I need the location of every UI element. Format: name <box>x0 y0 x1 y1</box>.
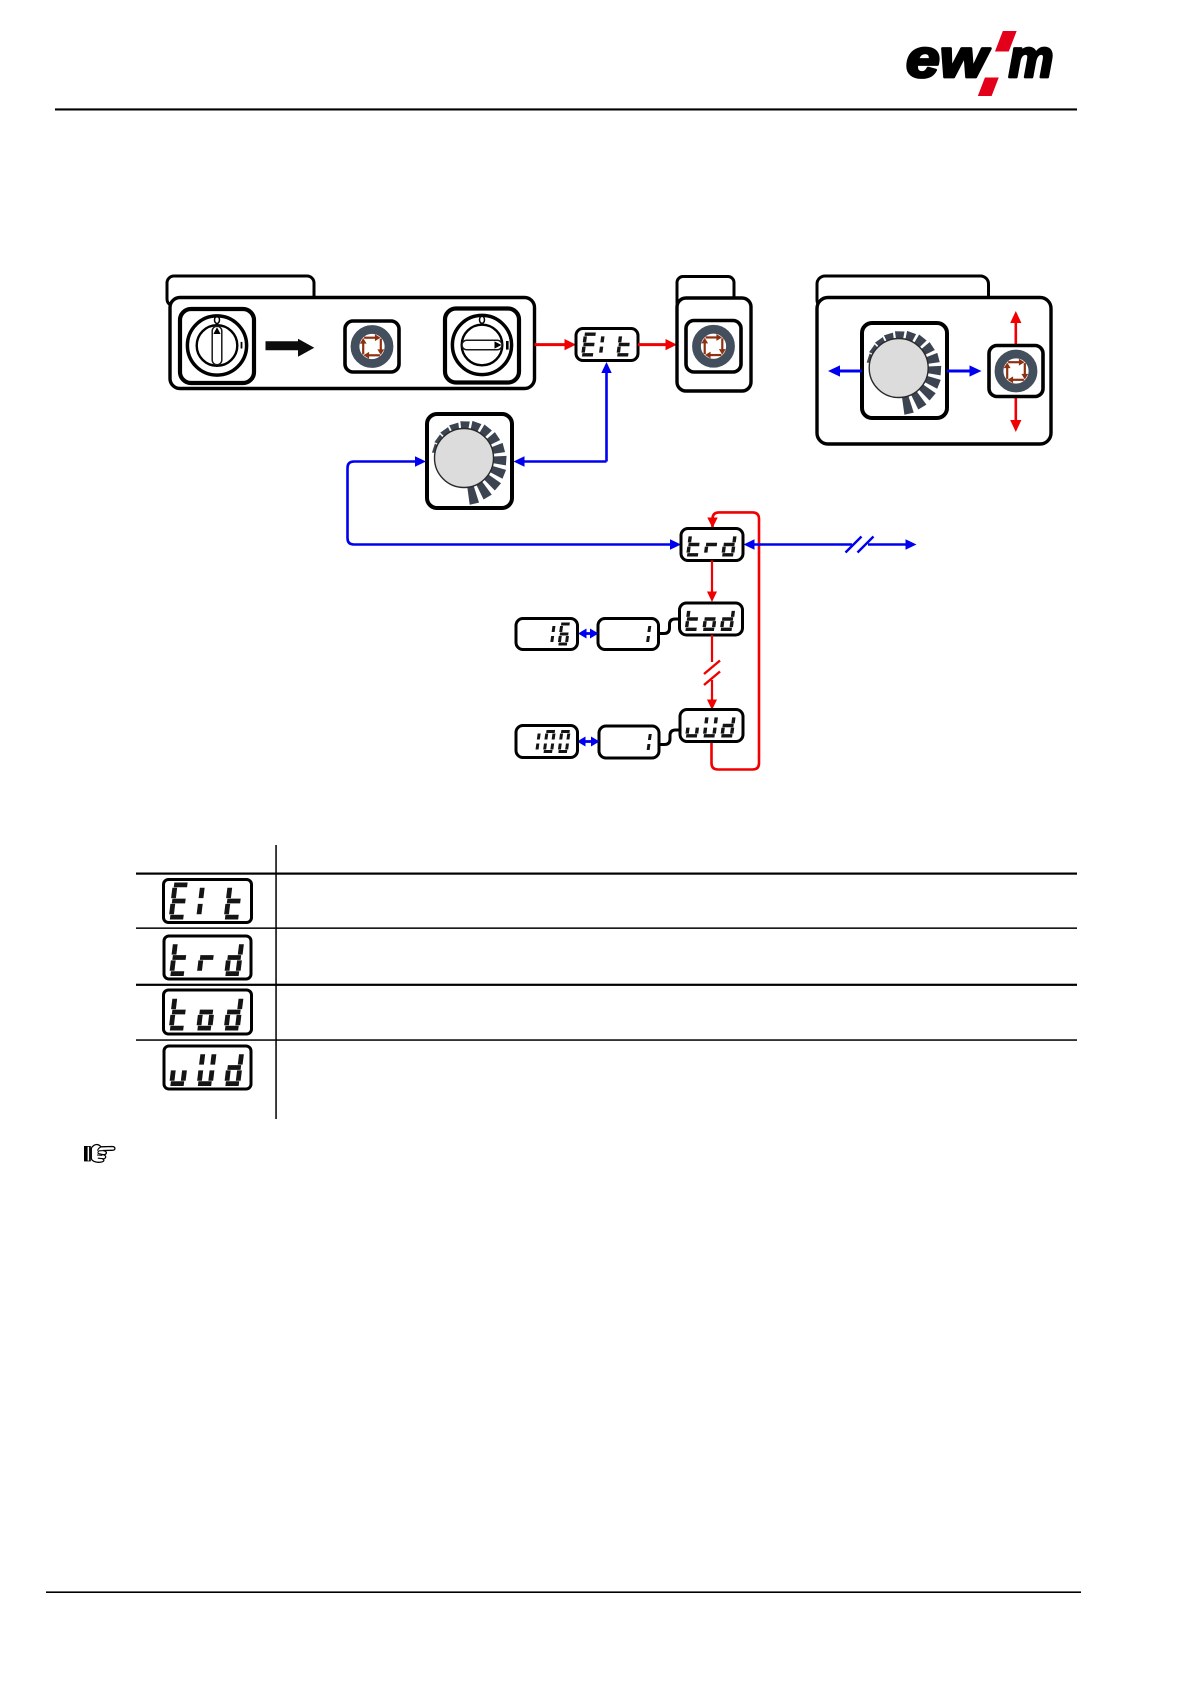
pointing hand icon <box>84 1145 115 1163</box>
table display trd <box>164 936 251 979</box>
display value 1 (tod) <box>598 619 659 650</box>
cycle button 2 <box>686 321 741 373</box>
blue arrow up into Elt <box>605 372 608 462</box>
display trd <box>681 529 743 561</box>
table display tod <box>164 990 252 1034</box>
table row line 2 <box>136 927 1077 929</box>
dial 2 box <box>862 323 947 418</box>
footer rule <box>46 1591 1081 1593</box>
blue arrow right <box>947 370 971 373</box>
blue arrow left <box>839 370 862 373</box>
ewm logo <box>906 29 1054 96</box>
table row line 3 <box>136 984 1077 986</box>
dial 1 wheel <box>432 421 507 505</box>
panel 2 <box>677 298 751 391</box>
header rule <box>55 108 1077 110</box>
red arrow to panel 2 <box>638 343 667 346</box>
blue wire loop to trd <box>348 462 671 545</box>
panel 1 <box>170 298 535 389</box>
rotary switch 1 (vertical, 0-I) <box>180 309 254 383</box>
blue wire right of trd with break <box>754 543 852 546</box>
blue break symbol <box>846 537 874 553</box>
red arrow trd to tod <box>711 561 713 593</box>
red arrow to Elt <box>535 343 566 346</box>
red break symbol <box>704 661 720 686</box>
svg-text:ew: ew <box>906 29 990 89</box>
svg-text:m: m <box>1009 29 1054 89</box>
dial 1 box <box>427 414 512 508</box>
cycle button 1 <box>345 321 399 372</box>
blue double arrow (vUd) <box>584 740 592 743</box>
cycle button 3 <box>989 346 1043 397</box>
panel 3 tab <box>817 276 989 308</box>
panel 2 tab <box>677 277 734 309</box>
table row line 4 <box>136 1039 1077 1041</box>
dial 2 wheel <box>867 331 942 415</box>
table display Elt <box>164 880 252 923</box>
red wire tod to vUd with break <box>711 635 713 662</box>
display tod <box>680 603 743 635</box>
display Elt <box>576 329 638 361</box>
red arrow up <box>1014 322 1017 346</box>
blue wire Elt-down to dial 1 <box>524 460 607 463</box>
panel 3 <box>817 298 1051 445</box>
rotary switch 2 (horizontal, 0-I) <box>445 309 519 383</box>
display value 100 <box>516 726 578 758</box>
panel 1 tab <box>167 276 314 306</box>
table column rule <box>275 845 277 1119</box>
red loop riser <box>712 512 760 769</box>
connector tod <box>659 619 681 634</box>
display value 16 <box>516 619 578 650</box>
blue double arrow (tod) <box>585 632 591 635</box>
red arrow down <box>1014 397 1017 422</box>
black arrow <box>266 339 315 357</box>
display value 1 (vUd) <box>599 726 659 758</box>
table display vUd <box>164 1046 251 1089</box>
connector vUd <box>659 730 681 745</box>
display vUd <box>680 710 743 742</box>
table row line 1 <box>136 873 1077 875</box>
